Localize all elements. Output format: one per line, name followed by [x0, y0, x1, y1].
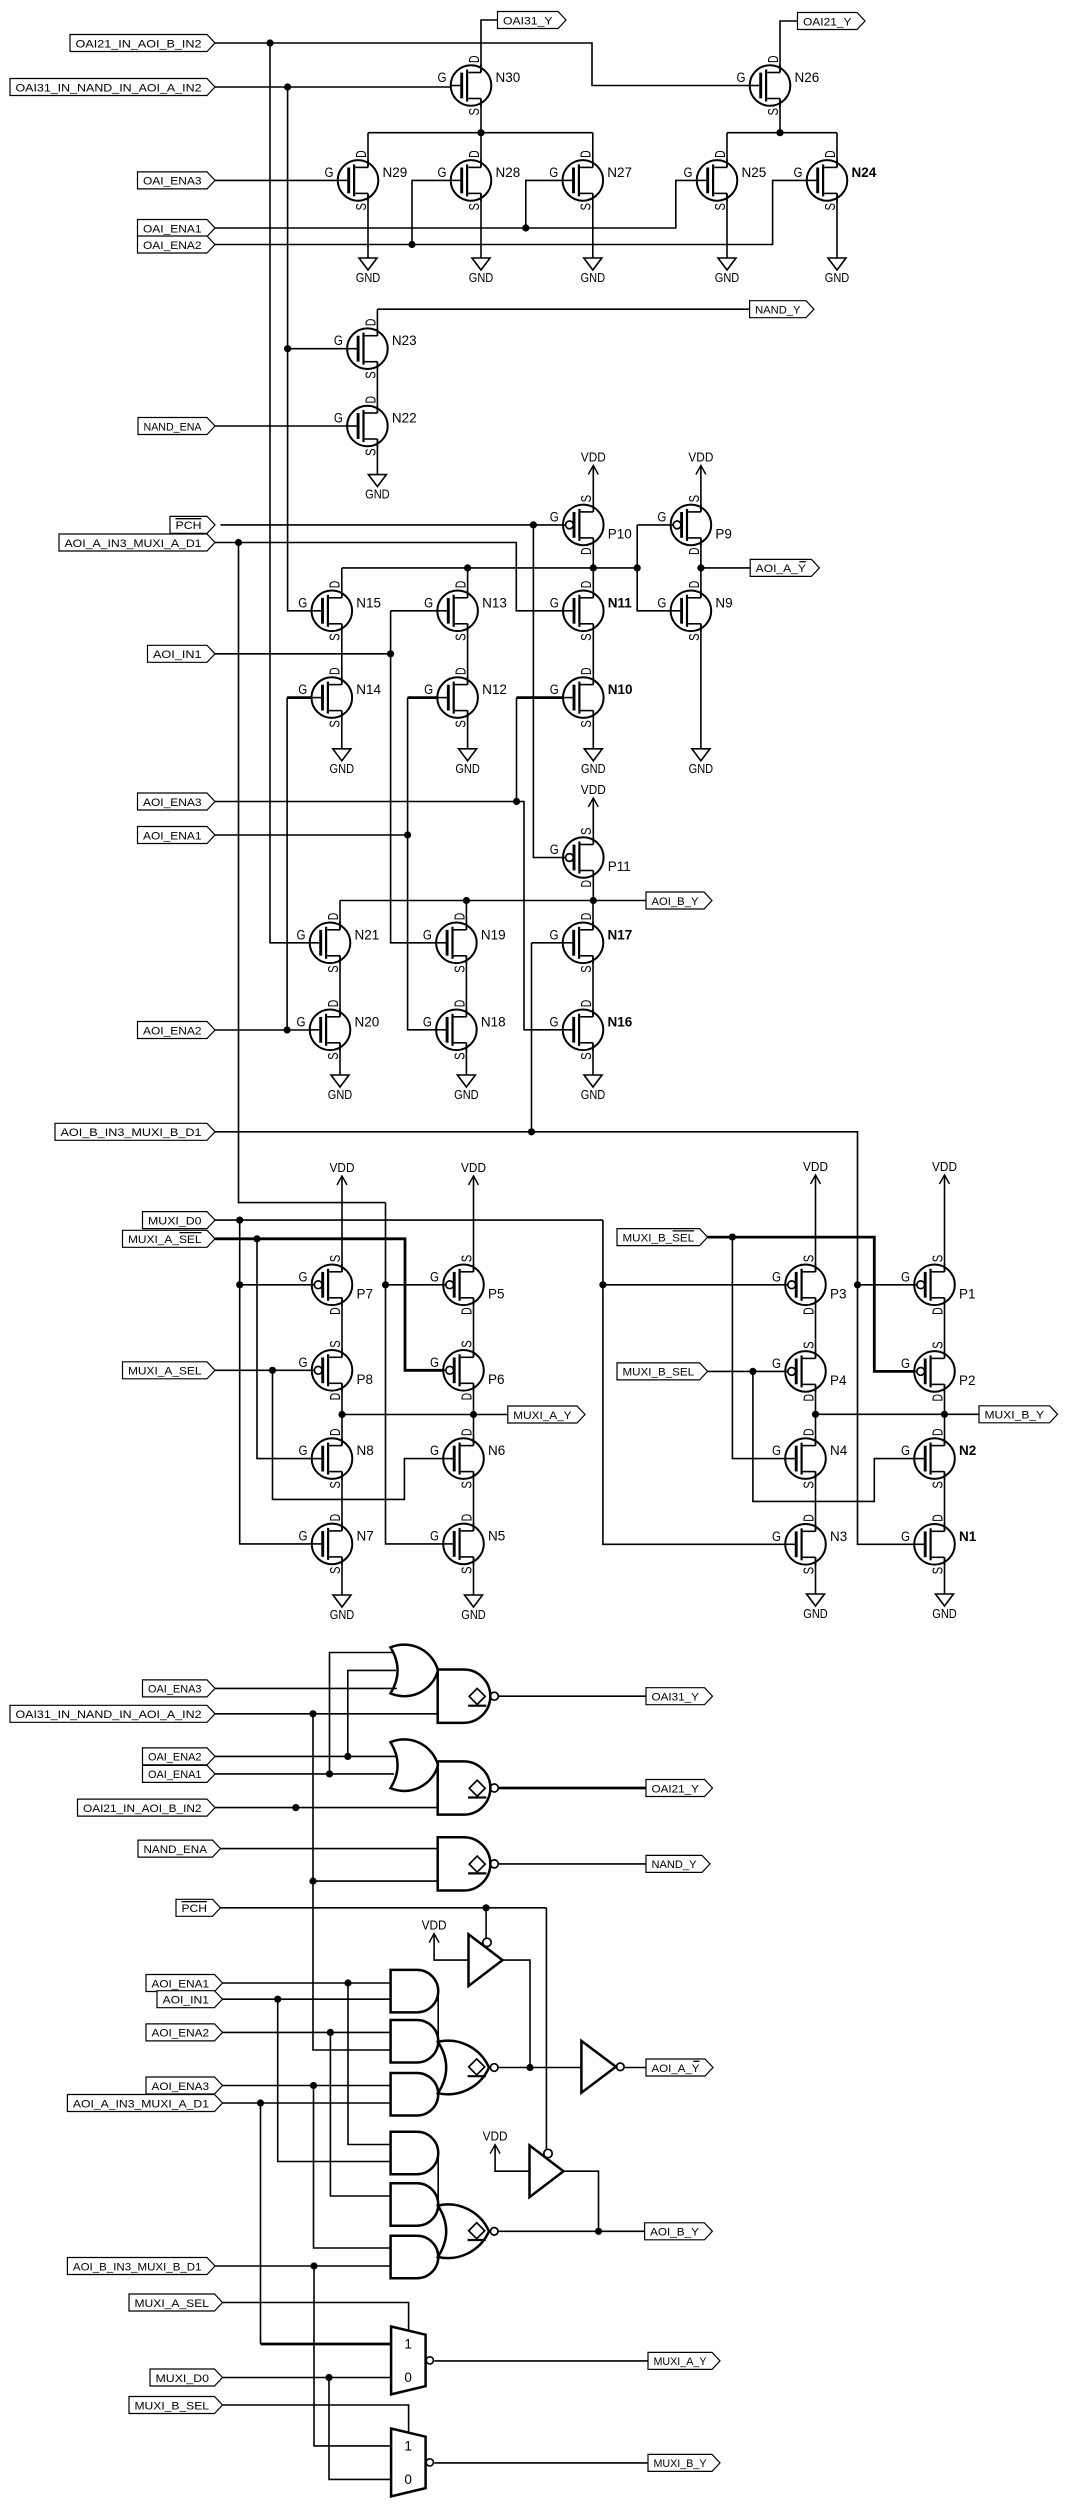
svg-text:S: S — [466, 108, 483, 116]
svg-text:D: D — [929, 1394, 946, 1402]
svg-text:P11: P11 — [608, 859, 631, 874]
svg-text:MUXI_A_SEL: MUXI_A_SEL — [128, 1234, 202, 1246]
svg-text:D: D — [458, 1307, 475, 1315]
svg-text:G: G — [901, 1356, 910, 1371]
svg-text:0: 0 — [404, 2370, 412, 2385]
svg-text:P4: P4 — [830, 1373, 847, 1388]
svg-text:S: S — [712, 203, 729, 211]
svg-text:D: D — [327, 1514, 344, 1522]
svg-text:D: D — [765, 55, 782, 63]
svg-text:P6: P6 — [488, 1372, 505, 1387]
svg-text:S: S — [458, 1255, 475, 1263]
svg-text:G: G — [430, 1269, 439, 1284]
svg-text:S: S — [458, 1340, 475, 1348]
svg-text:S: S — [765, 108, 782, 116]
svg-text:G: G — [424, 595, 433, 610]
svg-text:OAI_ENA2: OAI_ENA2 — [148, 1752, 202, 1764]
svg-text:GND: GND — [825, 271, 850, 285]
svg-text:D: D — [453, 667, 470, 675]
svg-text:0: 0 — [404, 2472, 412, 2487]
svg-text:N26: N26 — [795, 70, 820, 85]
svg-text:GND: GND — [365, 488, 390, 502]
svg-text:AOI_ENA1: AOI_ENA1 — [152, 1978, 210, 1990]
svg-text:PCH: PCH — [176, 520, 202, 532]
svg-text:G: G — [684, 165, 693, 180]
svg-text:GND: GND — [328, 1088, 353, 1102]
svg-text:AOI_A_Y: AOI_A_Y — [652, 2063, 700, 2075]
svg-text:N29: N29 — [383, 165, 408, 180]
svg-text:GND: GND — [469, 271, 494, 285]
svg-text:G: G — [901, 1269, 910, 1284]
svg-text:MUXI_B_Y: MUXI_B_Y — [654, 2458, 707, 2470]
svg-text:OAI31_Y: OAI31_Y — [652, 1692, 700, 1704]
svg-text:P7: P7 — [357, 1286, 374, 1301]
svg-text:S: S — [458, 1481, 475, 1489]
svg-text:N24: N24 — [852, 165, 877, 180]
svg-text:VDD: VDD — [461, 1161, 486, 1175]
svg-text:G: G — [299, 1528, 308, 1543]
svg-text:G: G — [297, 1014, 306, 1029]
svg-text:D: D — [929, 1428, 946, 1436]
svg-text:D: D — [451, 913, 468, 921]
svg-text:D: D — [466, 150, 483, 158]
svg-text:G: G — [299, 1443, 308, 1458]
svg-text:S: S — [578, 495, 595, 503]
svg-text:P10: P10 — [608, 526, 632, 541]
svg-text:N28: N28 — [496, 165, 521, 180]
svg-text:N9: N9 — [715, 595, 732, 610]
svg-text:S: S — [353, 203, 370, 211]
svg-text:D: D — [451, 1000, 468, 1008]
svg-text:G: G — [430, 1355, 439, 1370]
svg-text:N21: N21 — [355, 927, 380, 942]
svg-text:1: 1 — [404, 2438, 412, 2453]
svg-text:S: S — [578, 1052, 595, 1060]
svg-text:OAI21_IN_AOI_B_IN2: OAI21_IN_AOI_B_IN2 — [83, 1803, 202, 1815]
svg-text:OAI_ENA3: OAI_ENA3 — [143, 176, 202, 188]
svg-text:D: D — [458, 1393, 475, 1401]
svg-text:OAI31_Y: OAI31_Y — [503, 15, 553, 27]
svg-text:N30: N30 — [496, 70, 521, 85]
svg-text:OAI_ENA2: OAI_ENA2 — [143, 240, 202, 252]
svg-text:D: D — [327, 1428, 344, 1436]
svg-text:GND: GND — [330, 1608, 355, 1622]
svg-text:AOI_B_Y: AOI_B_Y — [650, 2227, 699, 2239]
svg-text:VDD: VDD — [581, 783, 606, 797]
svg-text:S: S — [325, 1052, 342, 1060]
svg-text:N5: N5 — [488, 1528, 505, 1543]
svg-text:D: D — [327, 581, 344, 589]
svg-text:S: S — [578, 827, 595, 835]
svg-text:P2: P2 — [959, 1373, 976, 1388]
svg-text:N11: N11 — [608, 595, 633, 610]
svg-text:VDD: VDD — [483, 2130, 508, 2144]
svg-text:GND: GND — [356, 271, 381, 285]
svg-text:AOI_ENA1: AOI_ENA1 — [143, 830, 202, 842]
svg-text:G: G — [772, 1356, 781, 1371]
svg-text:G: G — [424, 682, 433, 697]
svg-text:N18: N18 — [481, 1014, 506, 1029]
svg-text:D: D — [362, 319, 379, 327]
svg-text:MUXI_A_SEL: MUXI_A_SEL — [135, 2298, 210, 2310]
svg-text:N14: N14 — [356, 682, 381, 697]
svg-text:G: G — [550, 682, 559, 697]
svg-text:N23: N23 — [392, 333, 417, 348]
svg-text:G: G — [423, 1014, 432, 1029]
svg-text:S: S — [451, 1052, 468, 1060]
svg-text:G: G — [550, 509, 559, 524]
svg-text:GND: GND — [581, 1088, 606, 1102]
svg-text:MUXI_B_SEL: MUXI_B_SEL — [135, 2400, 210, 2412]
svg-text:G: G — [737, 70, 746, 85]
svg-text:MUXI_D0: MUXI_D0 — [156, 2373, 210, 2385]
svg-text:D: D — [466, 55, 483, 63]
svg-text:D: D — [578, 667, 595, 675]
svg-text:OAI_ENA1: OAI_ENA1 — [148, 1769, 202, 1781]
svg-text:AOI_ENA3: AOI_ENA3 — [143, 797, 202, 809]
svg-text:NAND_ENA: NAND_ENA — [144, 421, 202, 433]
svg-text:N2: N2 — [959, 1443, 976, 1458]
svg-text:VDD: VDD — [330, 1161, 355, 1175]
svg-text:P5: P5 — [488, 1286, 505, 1301]
svg-text:S: S — [362, 371, 379, 379]
svg-text:G: G — [772, 1269, 781, 1284]
svg-text:N15: N15 — [356, 595, 381, 610]
svg-text:S: S — [800, 1567, 817, 1575]
svg-text:S: S — [686, 633, 703, 641]
svg-text:MUXI_D0: MUXI_D0 — [148, 1215, 202, 1227]
svg-text:N8: N8 — [357, 1443, 374, 1458]
svg-text:D: D — [686, 581, 703, 589]
svg-text:MUXI_A_SEL: MUXI_A_SEL — [128, 1366, 202, 1378]
svg-text:G: G — [334, 411, 343, 426]
svg-text:P8: P8 — [357, 1372, 374, 1387]
svg-text:S: S — [327, 1340, 344, 1348]
svg-text:AOI_ENA3: AOI_ENA3 — [152, 2081, 210, 2093]
svg-text:OAI31_IN_NAND_IN_AOI_A_IN2: OAI31_IN_NAND_IN_AOI_A_IN2 — [16, 82, 202, 94]
svg-text:GND: GND — [689, 762, 714, 776]
svg-text:NAND_ENA: NAND_ENA — [144, 1844, 208, 1856]
svg-text:AOI_B_Y: AOI_B_Y — [652, 896, 699, 908]
svg-text:N13: N13 — [482, 595, 507, 610]
svg-text:PCH: PCH — [182, 1903, 208, 1915]
svg-text:MUXI_B_SEL: MUXI_B_SEL — [623, 1367, 695, 1379]
svg-text:D: D — [458, 1514, 475, 1522]
svg-text:AOI_ENA2: AOI_ENA2 — [152, 2028, 210, 2040]
svg-text:D: D — [325, 1000, 342, 1008]
svg-text:NAND_Y: NAND_Y — [755, 305, 801, 317]
svg-text:AOI_A_IN3_MUXI_A_D1: AOI_A_IN3_MUXI_A_D1 — [73, 2098, 209, 2110]
svg-text:G: G — [299, 1269, 308, 1284]
svg-text:N27: N27 — [607, 165, 632, 180]
svg-text:1: 1 — [404, 2336, 412, 2351]
svg-text:VDD: VDD — [422, 1919, 447, 1933]
svg-text:S: S — [453, 720, 470, 728]
svg-text:N25: N25 — [742, 165, 767, 180]
svg-text:OAI21_Y: OAI21_Y — [803, 16, 852, 28]
svg-text:G: G — [297, 927, 306, 942]
svg-text:AOI_B_IN3_MUXI_B_D1: AOI_B_IN3_MUXI_B_D1 — [61, 1127, 202, 1139]
svg-text:G: G — [325, 165, 334, 180]
svg-text:AOI_A_Y: AOI_A_Y — [756, 563, 807, 575]
svg-text:S: S — [325, 965, 342, 973]
svg-text:D: D — [578, 547, 595, 555]
svg-text:D: D — [327, 1307, 344, 1315]
svg-text:S: S — [327, 720, 344, 728]
svg-text:S: S — [327, 1255, 344, 1263]
svg-text:P3: P3 — [830, 1286, 847, 1301]
svg-text:AOI_IN1: AOI_IN1 — [153, 649, 202, 661]
svg-text:G: G — [772, 1443, 781, 1458]
svg-text:G: G — [549, 165, 558, 180]
svg-text:OAI_ENA1: OAI_ENA1 — [143, 223, 202, 235]
svg-text:G: G — [299, 1355, 308, 1370]
svg-text:G: G — [550, 595, 559, 610]
svg-text:OAI21_IN_AOI_B_IN2: OAI21_IN_AOI_B_IN2 — [76, 38, 202, 50]
svg-text:S: S — [800, 1481, 817, 1489]
svg-text:N19: N19 — [481, 927, 506, 942]
svg-text:N16: N16 — [608, 1014, 633, 1029]
svg-text:D: D — [453, 581, 470, 589]
svg-text:S: S — [327, 1481, 344, 1489]
svg-text:GND: GND — [715, 271, 740, 285]
svg-text:OAI21_Y: OAI21_Y — [652, 1783, 700, 1795]
svg-text:GND: GND — [454, 1088, 479, 1102]
svg-text:G: G — [550, 927, 559, 942]
svg-text:G: G — [298, 595, 307, 610]
svg-text:N12: N12 — [482, 682, 507, 697]
svg-text:GND: GND — [330, 762, 355, 776]
svg-text:G: G — [794, 165, 803, 180]
svg-text:S: S — [929, 1341, 946, 1349]
svg-text:NAND_Y: NAND_Y — [652, 1859, 697, 1871]
svg-text:S: S — [800, 1341, 817, 1349]
svg-text:G: G — [550, 842, 559, 857]
svg-text:GND: GND — [932, 1607, 957, 1621]
svg-text:S: S — [578, 965, 595, 973]
svg-text:G: G — [298, 682, 307, 697]
svg-text:D: D — [578, 1000, 595, 1008]
svg-text:D: D — [353, 150, 370, 158]
svg-text:S: S — [453, 633, 470, 641]
svg-text:S: S — [327, 633, 344, 641]
svg-text:VDD: VDD — [803, 1160, 828, 1174]
svg-text:D: D — [578, 581, 595, 589]
svg-text:D: D — [800, 1394, 817, 1402]
svg-text:D: D — [578, 880, 595, 888]
svg-text:N4: N4 — [830, 1443, 848, 1458]
svg-text:G: G — [657, 509, 666, 524]
svg-text:G: G — [901, 1443, 910, 1458]
svg-text:S: S — [327, 1566, 344, 1574]
svg-text:OAI_ENA3: OAI_ENA3 — [148, 1684, 202, 1696]
svg-text:S: S — [686, 495, 703, 503]
svg-text:P1: P1 — [959, 1286, 976, 1301]
svg-text:GND: GND — [581, 271, 606, 285]
svg-text:D: D — [362, 396, 379, 404]
svg-text:S: S — [578, 633, 595, 641]
svg-text:GND: GND — [581, 762, 606, 776]
svg-text:AOI_A_IN3_MUXI_A_D1: AOI_A_IN3_MUXI_A_D1 — [65, 538, 202, 550]
svg-text:S: S — [578, 720, 595, 728]
svg-text:G: G — [430, 1443, 439, 1458]
svg-text:AOI_ENA2: AOI_ENA2 — [143, 1025, 202, 1037]
svg-text:S: S — [362, 449, 379, 457]
svg-text:G: G — [438, 70, 447, 85]
svg-text:G: G — [430, 1528, 439, 1543]
svg-text:G: G — [901, 1529, 910, 1544]
svg-text:N7: N7 — [357, 1528, 374, 1543]
svg-text:D: D — [686, 547, 703, 555]
svg-text:D: D — [822, 150, 839, 158]
svg-text:N20: N20 — [355, 1014, 380, 1029]
svg-text:N3: N3 — [830, 1529, 847, 1544]
svg-text:D: D — [929, 1307, 946, 1315]
svg-text:MUXI_B_SEL: MUXI_B_SEL — [623, 1232, 695, 1244]
svg-text:N1: N1 — [959, 1529, 977, 1544]
svg-text:MUXI_A_Y: MUXI_A_Y — [654, 2356, 707, 2368]
svg-text:S: S — [458, 1566, 475, 1574]
svg-text:P9: P9 — [715, 526, 732, 541]
svg-text:N17: N17 — [608, 927, 633, 942]
svg-text:G: G — [657, 595, 666, 610]
svg-text:D: D — [800, 1428, 817, 1436]
svg-text:S: S — [451, 965, 468, 973]
svg-text:GND: GND — [461, 1608, 486, 1622]
svg-text:D: D — [578, 913, 595, 921]
svg-text:VDD: VDD — [932, 1160, 957, 1174]
svg-text:D: D — [712, 150, 729, 158]
svg-text:GND: GND — [455, 762, 480, 776]
svg-text:D: D — [327, 1393, 344, 1401]
svg-text:S: S — [466, 203, 483, 211]
svg-text:GND: GND — [803, 1607, 828, 1621]
svg-text:MUXI_B_Y: MUXI_B_Y — [985, 1410, 1045, 1422]
svg-text:D: D — [327, 667, 344, 675]
svg-text:G: G — [550, 1014, 559, 1029]
svg-text:D: D — [458, 1428, 475, 1436]
svg-text:AOI_IN1: AOI_IN1 — [163, 1995, 210, 2007]
svg-text:G: G — [423, 927, 432, 942]
svg-text:G: G — [334, 333, 343, 348]
svg-text:D: D — [325, 913, 342, 921]
svg-text:S: S — [800, 1255, 817, 1263]
svg-text:AOI_B_IN3_MUXI_B_D1: AOI_B_IN3_MUXI_B_D1 — [73, 2261, 202, 2273]
svg-text:N10: N10 — [608, 682, 633, 697]
svg-text:VDD: VDD — [688, 451, 713, 465]
svg-text:S: S — [929, 1255, 946, 1263]
svg-text:N6: N6 — [488, 1443, 505, 1458]
svg-text:S: S — [822, 203, 839, 211]
svg-text:VDD: VDD — [581, 451, 606, 465]
svg-text:MUXI_A_Y: MUXI_A_Y — [513, 1410, 572, 1422]
svg-text:OAI31_IN_NAND_IN_AOI_A_IN2: OAI31_IN_NAND_IN_AOI_A_IN2 — [16, 1709, 202, 1721]
svg-text:S: S — [578, 203, 595, 211]
svg-text:G: G — [772, 1529, 781, 1544]
svg-text:G: G — [438, 165, 447, 180]
svg-text:S: S — [929, 1481, 946, 1489]
svg-text:D: D — [800, 1307, 817, 1315]
svg-text:D: D — [929, 1514, 946, 1522]
svg-text:S: S — [929, 1567, 946, 1575]
svg-text:D: D — [578, 150, 595, 158]
svg-text:N22: N22 — [392, 411, 417, 426]
svg-text:D: D — [800, 1514, 817, 1522]
